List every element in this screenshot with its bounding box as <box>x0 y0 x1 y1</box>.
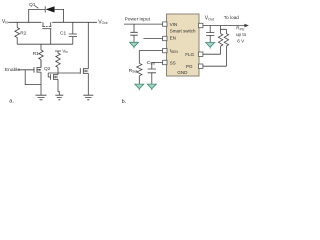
transistor Q1 (PMOS pass element) <box>42 22 51 44</box>
ground (under Q4) <box>83 95 93 100</box>
svg-text:FLG: FLG <box>185 52 194 57</box>
label R_set <box>129 68 138 74</box>
label SS pin <box>170 60 176 65</box>
label Smart switch <box>170 28 196 33</box>
svg-text:EN: EN <box>170 36 176 41</box>
transistor Q3 <box>51 73 59 92</box>
svg-text:Vin: Vin <box>2 19 8 25</box>
label Vout (panel b) <box>205 16 214 22</box>
label To load <box>224 15 240 20</box>
svg-text:VIN: VIN <box>170 22 178 27</box>
label Enable <box>5 67 21 73</box>
resistor R2 <box>15 22 20 44</box>
svg-text:up to: up to <box>236 32 247 37</box>
pin VIN <box>163 22 167 26</box>
label a. <box>9 98 14 104</box>
wire Enable ground branch <box>25 70 41 85</box>
wire Vout rail down to Q4 drain <box>87 22 89 68</box>
svg-text:6 V: 6 V <box>237 38 245 43</box>
label R2 <box>20 30 26 36</box>
svg-text:Q1: Q1 <box>29 2 36 8</box>
label Vin (supply) <box>62 48 68 54</box>
svg-text:a.: a. <box>9 98 14 104</box>
ground (under Q2) <box>36 95 47 100</box>
svg-text:VOut: VOut <box>205 16 214 22</box>
node Vin label <box>2 19 8 25</box>
svg-text:CSS: CSS <box>147 60 156 66</box>
arrow to load <box>244 24 249 27</box>
IC U1 smart switch body <box>167 14 200 76</box>
wire Q3 source jog to ground <box>58 92 59 95</box>
svg-text:PG: PG <box>186 64 193 69</box>
label GND pin <box>177 70 188 75</box>
capacitor C_SS <box>148 69 156 84</box>
wire Q1 label arrow <box>35 6 39 9</box>
svg-text:Power input: Power input <box>125 17 151 23</box>
wire power input rail <box>124 23 163 25</box>
wire Vout to load <box>203 25 245 27</box>
svg-text:SS: SS <box>170 60 176 65</box>
transistor Q2 <box>34 61 41 96</box>
wire SS <box>152 63 163 70</box>
capacitor C_in <box>130 24 137 42</box>
svg-text:b.: b. <box>122 99 127 105</box>
pin EN <box>163 36 167 40</box>
label Power input <box>125 17 151 23</box>
svg-text:Vin: Vin <box>62 48 68 54</box>
pin SS <box>163 60 167 64</box>
label EN pin <box>170 36 176 41</box>
svg-text:RSet: RSet <box>129 68 138 74</box>
wire pull-up feed <box>221 26 227 30</box>
label C_SS <box>147 60 156 66</box>
label up to <box>236 32 247 37</box>
wire node A to Q3 gate <box>48 73 50 77</box>
svg-text:Q2: Q2 <box>44 66 51 72</box>
wire gate node <box>17 43 73 45</box>
wire node A <box>48 72 80 74</box>
wire Isen <box>139 51 162 64</box>
label VIN pin <box>170 22 178 27</box>
pin VOUT <box>199 23 203 27</box>
svg-text:Smart switch: Smart switch <box>170 28 196 33</box>
svg-text:GND: GND <box>177 70 188 75</box>
resistor R3 (Vin pull-up) <box>56 53 60 73</box>
label ISEN pin <box>170 48 179 54</box>
svg-text:RPU: RPU <box>236 26 245 32</box>
ground (C_in, green) <box>130 42 139 48</box>
svg-text:C1: C1 <box>60 31 66 37</box>
label PG pin <box>186 64 193 69</box>
ground (R_set, green) <box>135 84 144 90</box>
label Q2 <box>44 66 51 72</box>
pin FLG <box>199 52 203 56</box>
svg-text:ISEN: ISEN <box>170 48 179 54</box>
label Q1 <box>29 2 36 8</box>
label R_PU <box>236 26 245 32</box>
wire Vin rail <box>8 21 97 23</box>
pin PG <box>199 64 203 68</box>
label b. <box>122 99 127 105</box>
label FLG pin <box>185 52 194 57</box>
ground (under Q3) <box>55 95 63 100</box>
svg-text:VOut: VOut <box>98 19 107 25</box>
ground (C_SS, green) <box>147 84 156 90</box>
svg-text:R1: R1 <box>33 51 39 57</box>
resistor R_FLG pull-up <box>218 29 222 54</box>
power Vin supply bar <box>55 51 61 53</box>
transistor Q4 <box>80 68 88 95</box>
wire FLG <box>203 53 221 55</box>
wire Enable <box>18 69 35 71</box>
wire EN stub <box>144 38 163 40</box>
capacitor C1 <box>69 22 77 44</box>
resistor R_PG pull-up <box>224 29 228 66</box>
label R1 <box>33 51 39 57</box>
label 6 V <box>237 38 245 43</box>
capacitor C_out <box>206 26 214 43</box>
resistor R_set <box>137 63 142 84</box>
svg-text:R2: R2 <box>20 30 26 36</box>
label C1 <box>60 31 66 37</box>
node Vout label (panel a) <box>98 19 107 25</box>
resistor R1 <box>39 44 43 67</box>
svg-text:To load: To load <box>224 15 240 20</box>
wire PG <box>203 65 227 67</box>
ground (C_out, green) <box>206 43 215 49</box>
pin ISEN <box>163 48 167 52</box>
diode D1 (Q1 body diode) <box>29 6 64 22</box>
